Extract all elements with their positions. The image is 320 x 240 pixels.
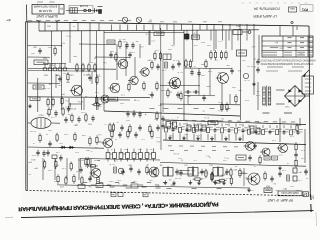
svg-text:ЕТ: ЕТ [304, 192, 308, 195]
svg-text:Д9В: Д9В [65, 81, 70, 83]
svg-text:10к: 10к [97, 75, 100, 77]
svg-text:LF AMPLIFIER: LF AMPLIFIER [253, 14, 277, 18]
svg-text:5,6к: 5,6к [103, 61, 107, 63]
svg-text:2,2к: 2,2к [282, 169, 286, 171]
svg-text:П422: П422 [38, 114, 44, 116]
svg-text:БЛОК ПИТАНИЯ: БЛОК ПИТАНИЯ [34, 5, 57, 9]
svg-text:RF AMP- IF UNIT: RF AMP- IF UNIT [267, 198, 293, 202]
svg-text:Д9В: Д9В [200, 63, 205, 65]
svg-text:2,2к: 2,2к [218, 109, 222, 111]
svg-text:68н: 68н [169, 90, 172, 92]
svg-text:ИЗМЕРЕНО ОТНОСИТЕЛЬНО ШАССИ ПР: ИЗМЕРЕНО ОТНОСИТЕЛЬНО ШАССИ ПРИ ОТСУТ- [258, 58, 316, 61]
svg-text:R7 1к: R7 1к [177, 71, 182, 73]
svg-text:68н: 68н [73, 55, 76, 57]
svg-text:2,2к: 2,2к [301, 149, 305, 151]
svg-text:КТ315: КТ315 [172, 152, 179, 154]
svg-text:СТВИИ СИГНАЛА ЛАМПОВЫМ ВОЛЬТМЕ: СТВИИ СИГНАЛА ЛАМПОВЫМ ВОЛЬТМЕТРОМ [261, 62, 314, 65]
svg-text:R7 1к: R7 1к [244, 79, 249, 81]
svg-text:2,2к: 2,2к [114, 160, 118, 162]
svg-text:2,2к: 2,2к [98, 133, 102, 135]
svg-text:УСИЛИТЕЛЬ ЗЧ: УСИЛИТЕЛЬ ЗЧ [253, 7, 280, 11]
svg-text:НО!: НО! [266, 185, 270, 187]
svg-text:5,6к: 5,6к [203, 97, 207, 99]
svg-text:5,6к: 5,6к [82, 134, 86, 136]
svg-text:R7 1к: R7 1к [78, 100, 83, 102]
svg-text:П422: П422 [95, 105, 101, 107]
svg-text:2,2к: 2,2к [257, 121, 261, 123]
svg-text:№4: №4 [290, 7, 295, 11]
svg-text:68н: 68н [86, 149, 89, 151]
svg-text:Д9В: Д9В [279, 47, 283, 49]
svg-text:5,6к: 5,6к [46, 112, 50, 114]
svg-text:68н: 68н [206, 85, 209, 87]
svg-text:Д9В: Д9В [73, 124, 77, 126]
svg-text:РУ1: РУ1 [302, 7, 308, 11]
svg-text:R7 1к: R7 1к [173, 59, 178, 61]
svg-text:10к: 10к [149, 179, 152, 181]
svg-text:КТ315: КТ315 [246, 65, 253, 67]
svg-text:R7 1к: R7 1к [109, 163, 114, 165]
svg-text:Х2 З,2В: Х2 З,2В [79, 4, 88, 6]
svg-text:КТ315: КТ315 [29, 130, 36, 132]
svg-text:7Д-0,1В 9В: 7Д-0,1В 9В [39, 9, 53, 13]
svg-text:РУ: РУ [59, 7, 63, 10]
svg-text:+: + [144, 112, 146, 116]
svg-text:Д9В: Д9В [60, 93, 64, 95]
svg-text:2,2к: 2,2к [272, 139, 276, 141]
svg-text:2,2к: 2,2к [191, 169, 195, 171]
svg-text:Д9В: Д9В [27, 161, 31, 163]
svg-text:SUPPLY UNIT: SUPPLY UNIT [36, 14, 58, 18]
svg-text:2,2к: 2,2к [150, 148, 154, 150]
svg-text:КТ315: КТ315 [62, 72, 69, 74]
svg-text:5,6к: 5,6к [171, 44, 175, 46]
svg-text:R7 1к: R7 1к [44, 87, 49, 89]
svg-text:R7 1к: R7 1к [204, 116, 209, 118]
svg-text:68н: 68н [128, 164, 131, 166]
svg-text:R7 1к: R7 1к [66, 34, 71, 36]
svg-text:КТ315: КТ315 [174, 177, 181, 179]
svg-text:R7 1к: R7 1к [224, 156, 229, 158]
svg-text:2,2к: 2,2к [131, 51, 135, 53]
svg-text:2,2к: 2,2к [162, 69, 166, 71]
